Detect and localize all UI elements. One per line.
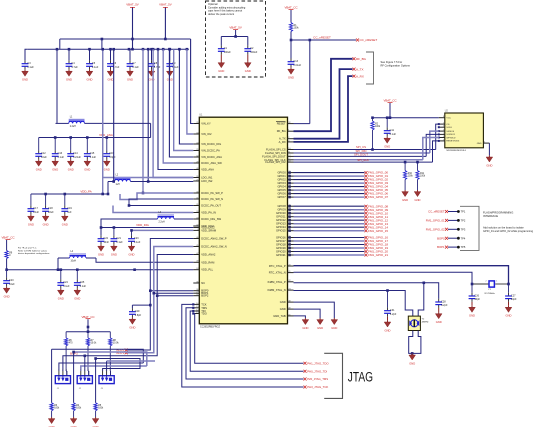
note optional decoupling box <box>206 1 266 77</box>
svg-text:FM1_GPIO_04: FM1_GPIO_04 <box>368 185 388 189</box>
svg-text:RTC_XTAL_P: RTC_XTAL_P <box>269 264 286 268</box>
wire header row1 <box>52 349 144 371</box>
capacitor C12 <box>35 138 47 172</box>
wire X48M_P to Y2 <box>418 283 424 316</box>
svg-text:FM1_GPIO_15: FM1_GPIO_15 <box>368 229 388 233</box>
svg-text:100k: 100k <box>54 407 60 409</box>
svg-text:DCDC_PA_OUT: DCDC_PA_OUT <box>201 204 221 208</box>
wire GPIO_11 <box>288 215 388 219</box>
svg-text:FM1_GPIO_05: FM1_GPIO_05 <box>368 188 388 192</box>
pin A_TX <box>353 67 364 71</box>
svg-text:device dependent configuration: device dependent configurations <box>18 252 50 255</box>
svg-text:1: 1 <box>102 369 103 371</box>
wire GPIO_14 <box>288 225 388 229</box>
capacitor C2 <box>244 45 257 73</box>
wire BOP1 join <box>154 292 194 294</box>
wire A_TX <box>294 69 353 139</box>
wire stair LDO_IN2 <box>147 49 150 183</box>
svg-text:GPIO16: GPIO16 <box>276 236 286 240</box>
pin BOP0 label <box>116 348 127 352</box>
wire GPIO_17 <box>288 239 388 243</box>
svg-text:100k: 100k <box>408 176 414 178</box>
capacitor C15 <box>84 138 97 172</box>
testpoint TP2 <box>426 219 466 223</box>
svg-text:FM1_GPIO_20: FM1_GPIO_20 <box>368 250 388 254</box>
svg-text:FM1_GPIO_10: FM1_GPIO_10 <box>368 211 388 215</box>
wire L1 feed <box>56 49 58 123</box>
svg-text:C13: C13 <box>293 60 298 63</box>
testpoint TP4 <box>437 236 466 240</box>
svg-text:TP2: TP2 <box>461 219 466 223</box>
wire VDD_ANA rail <box>39 133 151 139</box>
resistor R5 <box>94 403 104 417</box>
wire stair VIN_KY <box>191 39 194 124</box>
capacitor C26 <box>469 284 481 318</box>
wire CC_nRESET net <box>290 35 356 41</box>
svg-text:0.1uF: 0.1uF <box>63 285 70 288</box>
svg-text:VBAT_CC: VBAT_CC <box>1 236 14 240</box>
svg-text:FM1_GPIO_06: FM1_GPIO_06 <box>368 192 388 196</box>
wire drop to L2 <box>112 48 115 183</box>
wire SPI_IO2 <box>294 138 439 160</box>
svg-text:CC_nRESET: CC_nRESET <box>360 38 378 42</box>
svg-text:GND: GND <box>87 78 93 82</box>
svg-text:TP4: TP4 <box>461 236 466 240</box>
svg-text:3: 3 <box>443 136 444 138</box>
svg-text:GPIO17: GPIO17 <box>276 239 286 243</box>
svg-text:GND: GND <box>58 297 64 301</box>
ground IC GND2 <box>317 318 324 330</box>
wire GPIO_00 <box>288 171 388 175</box>
svg-text:FLASH_SPI_IO2: FLASH_SPI_IO2 <box>265 160 286 164</box>
wire RTC_XTAL_N <box>294 272 473 284</box>
svg-text:FM1_GPIO_01: FM1_GPIO_01 <box>426 219 445 223</box>
svg-text:C20: C20 <box>9 279 14 282</box>
svg-text:GND: GND <box>288 76 294 80</box>
wire GPIO_16 <box>288 236 388 240</box>
wire stair DCDC_ANA_SW <box>163 49 193 163</box>
wire rail drop mid <box>101 39 103 49</box>
svg-text:C26: C26 <box>474 294 479 297</box>
capacitor C4 <box>66 49 79 81</box>
resistor R9 <box>5 251 13 270</box>
svg-text:1uF: 1uF <box>67 211 72 214</box>
pin RF_BG <box>353 57 367 61</box>
wire long drop 2 <box>72 351 75 403</box>
power net VBAT_CC flash <box>383 99 396 118</box>
svg-text:PH3_JTAG_TCK: PH3_JTAG_TCK <box>307 385 328 389</box>
capacitor C13 <box>52 138 65 172</box>
svg-text:TP1: TP1 <box>461 210 466 214</box>
svg-text:BOP2: BOP2 <box>201 294 209 298</box>
svg-text:CS: CS <box>446 124 450 126</box>
svg-text:GND: GND <box>409 361 415 365</box>
svg-text:0.1uF: 0.1uF <box>92 66 99 69</box>
svg-text:100k: 100k <box>420 176 426 178</box>
svg-text:SI/SIO0: SI/SIO0 <box>446 131 454 133</box>
crystal Y1 <box>471 281 510 295</box>
testpoint TP1 <box>428 210 466 214</box>
wire L4 left down <box>57 258 60 271</box>
svg-text:RTC_XTAL_N: RTC_XTAL_N <box>269 271 286 275</box>
power net VBAT_CC top <box>284 6 297 23</box>
svg-text:10pF: 10pF <box>511 298 517 301</box>
svg-text:FM1_GPIO_13: FM1_GPIO_13 <box>368 222 388 226</box>
inductor L4 <box>58 251 96 263</box>
wire DCDC_ANA2_SW_N chain <box>127 247 193 353</box>
svg-text:DCDC_ANA2_SW_P: DCDC_ANA2_SW_P <box>201 237 227 241</box>
wire PH1_JTAG_TDO <box>192 312 303 363</box>
svg-text:GPIO9: GPIO9 <box>277 208 286 212</box>
note JTAG text <box>348 369 373 384</box>
svg-text:6: 6 <box>443 126 444 128</box>
svg-text:A_RX: A_RX <box>356 74 364 78</box>
svg-text:DCDC_DIG_SW: DCDC_DIG_SW <box>201 217 221 221</box>
svg-text:GPIO11: GPIO11 <box>276 215 286 219</box>
svg-text:32.768kHz: 32.768kHz <box>484 293 494 295</box>
svg-text:CC_nRESET: CC_nRESET <box>428 210 445 214</box>
svg-text:VBAT_CC: VBAT_CC <box>284 6 297 10</box>
svg-text:FM1_GPIO_17: FM1_GPIO_17 <box>368 239 388 243</box>
svg-text:PH0_JTAG_TDI: PH0_JTAG_TDI <box>307 369 327 373</box>
wire Y2 bottom loop <box>409 331 421 355</box>
wire R7 to J2 pin3 <box>87 371 90 376</box>
wire GPIO_20 <box>288 250 388 254</box>
capacitor C29 <box>129 305 150 330</box>
svg-text:See Figure 7.5 For: See Figure 7.5 For <box>381 60 403 64</box>
svg-text:100k: 100k <box>76 407 82 409</box>
resistor R3 <box>50 403 60 417</box>
svg-text:2: 2 <box>62 369 63 371</box>
svg-text:C31: C31 <box>390 309 395 312</box>
svg-text:TP3: TP3 <box>461 227 466 231</box>
svg-text:GPIO_01 and GPIO_02 while prog: GPIO_01 and GPIO_02 while programming <box>483 229 534 233</box>
capacitor C14 <box>67 138 81 172</box>
power net VBAT_CC bottom <box>81 315 94 333</box>
power net VBAT_5V optional <box>229 26 242 37</box>
capacitor C23 <box>128 235 141 256</box>
svg-text:VDD_ANA2: VDD_ANA2 <box>201 253 216 257</box>
svg-text:100uF: 100uF <box>250 51 258 54</box>
svg-text:C27: C27 <box>511 294 516 297</box>
svg-text:GND: GND <box>84 168 90 172</box>
pin CC_nRESET <box>356 38 377 42</box>
inductor L3 <box>150 212 193 224</box>
svg-text:GND: GND <box>129 326 135 330</box>
pin BOP1 label <box>116 351 127 355</box>
wire X48M_N <box>294 289 413 316</box>
svg-text:0.22uF: 0.22uF <box>73 156 81 159</box>
svg-text:0.1uF: 0.1uF <box>80 285 87 288</box>
svg-text:RF Configuration Options: RF Configuration Options <box>381 64 411 68</box>
svg-text:0.1uF: 0.1uF <box>134 241 141 244</box>
resistor R2 <box>371 118 381 151</box>
capacitor C28 <box>435 299 448 324</box>
svg-text:DCDC_PA_SW_P: DCDC_PA_SW_P <box>201 191 223 195</box>
capacitor C24 <box>57 270 70 301</box>
wire header row2 <box>74 352 147 371</box>
svg-text:VBAT_5V: VBAT_5V <box>126 3 139 7</box>
wire stair VIN_IO2 <box>187 49 193 134</box>
svg-text:C21: C21 <box>116 237 121 240</box>
svg-text:GND: GND <box>477 143 482 145</box>
svg-text:GND: GND <box>486 163 492 167</box>
wire GPIO_21 <box>288 253 388 257</box>
svg-text:22uF: 22uF <box>33 211 39 214</box>
svg-text:GND: GND <box>280 307 286 311</box>
note RF bracket <box>366 52 410 84</box>
svg-text:GND: GND <box>436 320 442 324</box>
svg-text:GND: GND <box>129 253 135 257</box>
wire L3 left to C22 <box>101 219 150 235</box>
svg-text:100k: 100k <box>294 28 300 30</box>
svg-text:GND: GND <box>469 314 475 318</box>
svg-text:10.0k: 10.0k <box>91 343 97 345</box>
svg-text:GND: GND <box>317 326 323 330</box>
capacitor C22 <box>98 235 110 256</box>
svg-text:FM1_GPIO_19: FM1_GPIO_19 <box>368 246 388 250</box>
svg-text:2: 2 <box>485 281 486 283</box>
resistor R6 <box>65 332 74 371</box>
svg-text:LDO_IN1: LDO_IN1 <box>201 176 213 180</box>
ground R3 <box>48 417 55 427</box>
inductor L1 <box>56 116 151 128</box>
svg-text:GPIO8: GPIO8 <box>277 204 286 208</box>
svg-text:GND: GND <box>4 295 10 299</box>
svg-text:GPIO4: GPIO4 <box>277 185 286 189</box>
svg-text:GND: GND <box>104 168 110 172</box>
wire VDD_PA_IN <box>113 204 193 212</box>
svg-text:1uH: 1uH <box>116 184 121 186</box>
svg-text:C19: C19 <box>67 207 72 210</box>
wire GPIO_18 <box>288 243 388 247</box>
wire rail drop left <box>59 39 61 49</box>
capacitor C18 <box>42 194 54 227</box>
ground IC GND_TAB <box>302 318 309 330</box>
wire GPIO_02 <box>288 178 388 182</box>
svg-text:GPIO1: GPIO1 <box>277 174 286 178</box>
svg-text:FM1_GPIO_02: FM1_GPIO_02 <box>368 178 388 182</box>
wire DCDC_ANA2_SW_P chain <box>127 239 193 351</box>
svg-text:VDD_SRAM: VDD_SRAM <box>201 228 217 232</box>
svg-text:GND: GND <box>98 253 104 257</box>
svg-text:VIN_KY: VIN_KY <box>201 122 211 126</box>
wire L1 to rail <box>150 123 152 137</box>
resistor R4 <box>72 403 82 417</box>
svg-text:2: 2 <box>443 133 444 135</box>
wire R6 to J1 pin3 <box>65 371 68 376</box>
svg-text:C18: C18 <box>48 207 53 210</box>
svg-text:2: 2 <box>84 369 85 371</box>
testpoint TP5 <box>437 245 466 249</box>
svg-text:4.7uF: 4.7uF <box>71 66 78 69</box>
ground Y2 <box>409 353 416 365</box>
svg-text:GND: GND <box>52 168 58 172</box>
svg-text:6.2pF: 6.2pF <box>441 304 448 307</box>
svg-text:GPIO5: GPIO5 <box>277 188 286 192</box>
wire BOP2 join <box>70 296 193 356</box>
wire J3 mid <box>107 361 155 371</box>
wire IC GND2 <box>294 309 321 318</box>
svg-text:SPI_DOUT: SPI_DOUT <box>354 152 368 156</box>
svg-text:FM1_GPIO_18: FM1_GPIO_18 <box>368 243 388 247</box>
svg-text:GPIO2: GPIO2 <box>277 178 286 182</box>
svg-text:100uF: 100uF <box>224 51 232 54</box>
svg-text:GND: GND <box>36 168 42 172</box>
svg-text:VBAT_CC: VBAT_CC <box>383 99 396 103</box>
svg-text:100k: 100k <box>98 407 104 409</box>
capacitor C7 <box>127 49 140 81</box>
svg-text:SPI_CLK: SPI_CLK <box>357 158 369 162</box>
wire GPIO_07 <box>288 195 388 199</box>
crystal Y2 <box>408 316 428 330</box>
svg-text:VIN_IO2: VIN_IO2 <box>201 132 212 136</box>
wire VDD_PLL rail <box>5 268 193 271</box>
svg-text:GND: GND <box>302 326 308 330</box>
svg-text:MX25R8035FZUIL0: MX25R8035FZUIL0 <box>447 150 467 152</box>
svg-text:VDD_ANA: VDD_ANA <box>99 133 113 137</box>
wire SPI_CS <box>294 124 439 149</box>
note programming bracket <box>460 206 534 250</box>
svg-text:C11: C11 <box>390 129 395 132</box>
svg-text:VDD_PA_IN: VDD_PA_IN <box>201 211 216 215</box>
svg-text:TDO: TDO <box>201 312 207 316</box>
svg-text:1: 1 <box>443 123 444 125</box>
svg-text:0.01uF: 0.01uF <box>293 64 301 67</box>
svg-text:FM1_GPIO_03: FM1_GPIO_03 <box>368 181 388 185</box>
svg-text:DCDC_ANA2_SW_N: DCDC_ANA2_SW_N <box>201 245 227 249</box>
svg-text:GND: GND <box>218 69 224 73</box>
wire stair VDD_ANA pin <box>158 49 193 169</box>
capacitor C9 <box>166 49 179 81</box>
svg-text:GND: GND <box>22 78 28 82</box>
wire GPIO_12 <box>288 218 388 222</box>
wire nRESET to IC <box>294 40 310 124</box>
svg-text:10nF: 10nF <box>103 241 109 244</box>
svg-text:TCK: TCK <box>201 302 207 306</box>
wire P20_JTAG_TMS <box>186 307 304 379</box>
svg-text:X48M_XTAL_N: X48M_XTAL_N <box>267 288 286 292</box>
capacitor C5 <box>86 49 99 81</box>
svg-text:Refer to EVM Table for values: Refer to EVM Table for values <box>18 249 48 252</box>
svg-text:FM1_GPIO_00: FM1_GPIO_00 <box>368 171 388 175</box>
wire RTC_XTAL_P <box>294 266 509 284</box>
IC U2 pin stubs <box>438 116 490 145</box>
svg-text:VBAT_CC: VBAT_CC <box>81 315 94 319</box>
capacitor C16 <box>103 138 116 172</box>
capacitor C25 <box>74 270 87 301</box>
pin PH3_JTAG_TCK <box>304 385 329 389</box>
connector J1 <box>55 369 70 390</box>
wire VDD_ANA2 chain <box>63 255 193 372</box>
svg-text:FM1_GPIO_11: FM1_GPIO_11 <box>368 215 388 219</box>
wire header row3 <box>96 359 140 372</box>
svg-text:FLASH_SPI_CS: FLASH_SPI_CS <box>266 148 286 152</box>
svg-text:48MHz: 48MHz <box>422 322 429 324</box>
wire cap C3 feed <box>25 49 27 60</box>
svg-text:VDD_DIG: VDD_DIG <box>136 223 150 227</box>
svg-text:C28: C28 <box>441 300 446 303</box>
svg-text:GND_TAB: GND_TAB <box>273 314 286 318</box>
svg-text:VIN_DCDC_DIG: VIN_DCDC_DIG <box>201 142 221 146</box>
svg-text:GND: GND <box>384 145 390 149</box>
svg-text:RF_BG: RF_BG <box>277 129 286 133</box>
wire A_RX <box>294 76 353 142</box>
svg-text:GPIO20: GPIO20 <box>276 250 286 254</box>
IC U1 right pin stubs <box>262 121 293 318</box>
svg-text:4: 4 <box>484 142 485 144</box>
svg-text:10uF: 10uF <box>41 156 47 159</box>
svg-text:0.1uF: 0.1uF <box>90 156 97 159</box>
svg-text:deliver the peak current: deliver the peak current <box>208 13 234 16</box>
svg-text:RESET: RESET <box>277 122 286 126</box>
svg-text:8: 8 <box>443 116 444 118</box>
svg-text:VBAT_5V: VBAT_5V <box>229 26 242 30</box>
wire GPIO_06 <box>288 192 388 196</box>
svg-text:FM1_GPIO_16: FM1_GPIO_16 <box>368 236 388 240</box>
pin PH1_JTAG_TDO <box>304 361 330 365</box>
wire stair VIN_DCDC_ANA <box>169 49 193 157</box>
svg-text:GPIO6: GPIO6 <box>277 192 286 196</box>
svg-text:CC_nRESET: CC_nRESET <box>313 35 331 39</box>
svg-text:FM1_GPIO_12: FM1_GPIO_12 <box>368 218 388 222</box>
wire L2 feed from VDD_PA rail <box>107 182 109 195</box>
svg-text:10uF: 10uF <box>9 283 15 286</box>
note JTAG bracket <box>324 353 342 398</box>
svg-text:C25: C25 <box>80 281 85 284</box>
svg-text:P20_JTAG_TMS: P20_JTAG_TMS <box>307 377 328 381</box>
svg-text:CC2652RB1FRGZ: CC2652RB1FRGZ <box>200 326 220 329</box>
capacitor C3 <box>22 60 35 81</box>
resistor R10 <box>402 162 414 202</box>
capacitor C27 <box>505 284 517 318</box>
pin PH0_JTAG_TDI <box>304 369 328 373</box>
wire long drop 1 <box>51 349 53 403</box>
svg-text:C23: C23 <box>134 237 139 240</box>
pin P20_JTAG_TMS <box>304 377 329 381</box>
wire flash VCC rail <box>371 116 439 119</box>
svg-text:DCDC_PA_SW_N: DCDC_PA_SW_N <box>201 197 223 201</box>
IC U1 left pin stubs <box>193 122 226 316</box>
svg-text:0.1uF: 0.1uF <box>58 156 65 159</box>
wire X48M_P <box>294 282 439 299</box>
svg-text:X48M_XTAL_P: X48M_XTAL_P <box>267 280 286 284</box>
svg-text:GND: GND <box>62 223 68 227</box>
svg-text:GND: GND <box>245 69 251 73</box>
svg-text:C22: C22 <box>103 237 108 240</box>
svg-text:C15: C15 <box>90 152 95 155</box>
wire bop rail <box>66 331 110 333</box>
capacitor C1 <box>218 45 231 73</box>
wire GPIO_13 <box>288 222 388 226</box>
svg-text:2.2uH: 2.2uH <box>70 126 76 128</box>
svg-text:2: 2 <box>106 369 107 371</box>
wire LDO_IN1 <box>103 49 194 177</box>
wire GPIO_03 <box>288 181 388 185</box>
svg-text:GPIO14: GPIO14 <box>276 225 286 229</box>
svg-text:VDD_PA: VDD_PA <box>80 190 91 194</box>
ground IC GND1 <box>331 318 338 330</box>
capacitor C6 <box>107 49 120 81</box>
svg-text:GND: GND <box>331 326 337 330</box>
svg-text:BOP1: BOP1 <box>437 245 445 249</box>
svg-text:FM1_GPIO_14: FM1_GPIO_14 <box>368 225 388 229</box>
wire long drop 3 <box>94 357 97 403</box>
wire optional rail <box>221 35 248 45</box>
wire stair VIN_DCDC_DIG <box>179 49 193 144</box>
wire IC GND_TAB <box>294 316 306 318</box>
wire drop to VDD_PA rail <box>101 48 104 195</box>
